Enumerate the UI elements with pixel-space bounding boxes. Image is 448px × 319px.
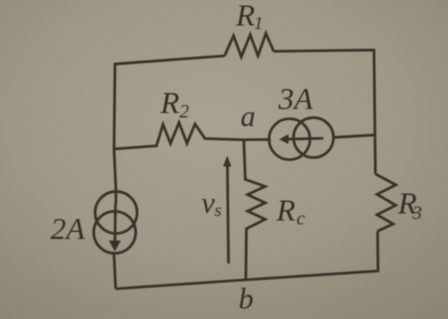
- wire: middle horizontal with resistor R2: [114, 123, 271, 150]
- wire: left side and top-left run to R1: [114, 56, 225, 204]
- svg-text:c: c: [297, 209, 306, 230]
- wire: top-right and right side down to R3: [274, 50, 376, 174]
- svg-text:3A: 3A: [278, 81, 315, 116]
- svg-text:s: s: [215, 200, 222, 220]
- svg-text:b: b: [239, 283, 254, 316]
- current source I2 3A circles: [269, 119, 310, 160]
- wire: right side bottom, bottom run to bottom-left corner: [116, 231, 378, 289]
- svg-text:R: R: [235, 0, 255, 33]
- resistor R3: [375, 174, 395, 231]
- svg-text:2: 2: [180, 102, 190, 123]
- resistor R1: [225, 33, 274, 57]
- svg-text:3: 3: [412, 203, 423, 224]
- voltage arrow vs: [227, 166, 228, 264]
- current source I1 2A circles: [95, 192, 137, 234]
- svg-text:v: v: [202, 187, 216, 220]
- current source I2 3A arrow: [289, 137, 324, 141]
- svg-text:2A: 2A: [51, 211, 87, 246]
- wire: from 3A source to right side: [333, 135, 374, 138]
- wire: middle branch with resistor Rc: [244, 140, 265, 280]
- svg-text:1: 1: [254, 13, 263, 33]
- svg-text:R: R: [276, 193, 296, 228]
- wire: left side below 2A source: [114, 254, 116, 289]
- current source I1 2A arrow: [114, 204, 117, 243]
- svg-text:a: a: [241, 100, 256, 133]
- svg-text:R: R: [160, 85, 180, 120]
